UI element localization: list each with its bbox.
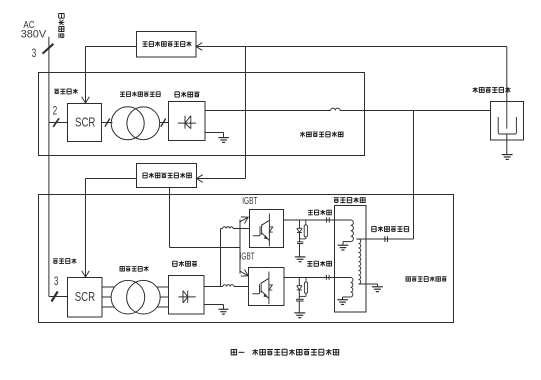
wire upper SCR to transformer [102, 122, 113, 124]
wire secondary bottom [359, 283, 378, 285]
wire lower snubber drop [298, 278, 300, 286]
transformer T1 basic HV transformer [111, 107, 144, 140]
label SCR (lower) [75, 291, 95, 305]
label SCR (upper) [75, 116, 95, 130]
label 整流硅堆 (upper) [175, 92, 179, 97]
wire D1 lower output to ground [205, 132, 224, 134]
label 电源进线 (vertical) [59, 13, 64, 18]
wire U2 bottom IGBT gate feed [169, 188, 171, 248]
rectifier D2 lower silicon stack box [169, 276, 205, 315]
wire lower SCR phase C [102, 306, 115, 308]
wire gate to lower IGBT [240, 271, 248, 276]
wire ESP feed vertical [506, 47, 508, 102]
wire snubber mid (upper) [299, 233, 301, 242]
wire D2 lower output to ground [204, 304, 224, 306]
wire to ground G3 [299, 244, 301, 257]
wire branch to upper SCR [49, 122, 68, 124]
IGBT symbol (lower) [268, 272, 270, 279]
inductor L1 on main line [331, 108, 340, 110]
thyristor Q1 upper SCR box [68, 104, 102, 142]
wire bus to L2 [221, 228, 223, 230]
svg-text:IGBT: IGBT [242, 194, 257, 206]
wire secondary top (coupling) [356, 238, 413, 240]
transformer T3 pulse transformer box [335, 206, 367, 313]
capacitor C1 storage (series marks) [326, 217, 328, 222]
wire T2 out phase C [157, 306, 169, 308]
thyristor Q2 lower SCR box [68, 278, 103, 318]
arrow into upper IGBT [241, 217, 248, 224]
arrow into lower IGBT [241, 269, 248, 276]
wire upper IGBT output [284, 219, 351, 221]
wire coupling riser to main line [413, 111, 415, 240]
wire U2 left to lower SCR gate [86, 178, 137, 180]
wire snubber junction (lower) [299, 295, 306, 297]
svg-text:3: 3 [32, 48, 37, 61]
resistor R2 lower snubber [305, 278, 307, 282]
inductor L2 upper IGBT feed [223, 227, 234, 229]
label IGBT (upper) [242, 194, 257, 206]
T3 secondary winding [359, 239, 361, 284]
transistor V2 lower IGBT box [249, 268, 285, 306]
module U2 pulse HV control module box [137, 164, 197, 188]
wire L3 to lower IGBT [234, 286, 249, 288]
transformer T2 medium voltage transformer [111, 280, 145, 314]
wire to ground G6 [298, 301, 300, 313]
wire slash 2-phase (upper SCR input) [53, 118, 59, 127]
svg-text:IGBT: IGBT [240, 250, 255, 262]
wire T3 lower primary to ground [343, 296, 351, 298]
capacitor C2 upper snubber [297, 241, 303, 243]
wire snubber mid (lower) [298, 290, 300, 299]
capacitor C5 isolation coupling marks [384, 236, 386, 242]
wire U1 gate drive vertical [85, 47, 87, 104]
label 储能电容 (upper) [308, 210, 313, 215]
wire ESP to ground [506, 134, 508, 154]
label 隔离耦合电容 [372, 226, 376, 231]
label phase count 3 (top) [32, 48, 37, 61]
arrow into U1 right edge [196, 43, 202, 51]
box conventional power supply main circuit (常规电源主回路) [39, 73, 365, 156]
wire L2 to upper IGBT [233, 228, 249, 230]
rectifier D1 upper silicon stack box [169, 102, 206, 141]
ESP electric field box [491, 102, 524, 141]
box pulse power supply main circuit (脉冲电源主回路) [39, 195, 454, 323]
label 中压变压器 [120, 267, 124, 271]
wire slash (SCR-transformer) [105, 119, 110, 127]
wire T2 out phase A [157, 286, 169, 288]
wire gate to upper IGBT [240, 217, 248, 222]
svg-text:SCR: SCR [75, 116, 95, 130]
ground G8 (lower rectifier) [219, 309, 229, 314]
wire lower SCR phase B [102, 296, 111, 298]
wire T3 upper primary to ground [343, 241, 351, 243]
ground G4 (upper primary) [338, 245, 349, 250]
T3 lower primary winding [351, 278, 353, 298]
label 脉冲变压器 [334, 198, 339, 203]
arrow into upper SCR [82, 97, 90, 103]
wire D1 output main HV line [205, 110, 331, 112]
arrow into U2 right edge [197, 175, 203, 183]
label 电除尘器电场 [473, 87, 478, 93]
diode D4 lower snubber [297, 285, 303, 287]
wire transformer to rectifier [160, 122, 169, 124]
module U1 basic HV control module box [137, 32, 197, 58]
label phase count 2 (upper) [53, 105, 58, 118]
svg-text:2: 2 [53, 105, 58, 118]
label 可控硅组 (lower) [53, 259, 58, 263]
inductor L3 lower IGBT feed [223, 285, 234, 287]
arrow into lower SCR [82, 271, 90, 277]
wire slash (transformer-rectifier) [161, 119, 166, 127]
wire IGBT gate bus vertical [239, 220, 241, 274]
svg-text:380V: 380V [21, 28, 47, 40]
transistor V1 upper IGBT box [250, 210, 284, 248]
T3 upper primary winding [351, 220, 354, 242]
label IGBT (lower) [240, 250, 255, 262]
ground G7 (lower primary) [337, 300, 348, 305]
caption 图一 脉冲高压电源主回路原理示意图 [231, 349, 236, 354]
label 基础高压控制模块 [143, 42, 148, 47]
IGBT symbol (upper) [268, 214, 270, 221]
diode D3 upper snubber [297, 227, 303, 229]
ground G5 (secondary) [372, 287, 383, 292]
ground G3 (upper snubber) [295, 257, 306, 262]
svg-text:SCR: SCR [75, 291, 95, 305]
ground G2 (ESP) [502, 155, 513, 160]
wire U1 left to SCR gate [86, 46, 137, 48]
wire snubber junction (upper) [300, 238, 306, 240]
ESP electrode symbol [506, 102, 508, 129]
ground G1 (upper rectifier) [218, 138, 228, 143]
capacitor C4 lower snubber [296, 298, 304, 300]
diode symbol in D1 [178, 122, 196, 124]
wire U2 gate drive vertical [85, 179, 87, 278]
svg-text:3: 3 [54, 276, 59, 289]
wire DC bus vertical [220, 229, 222, 287]
wire AC 3-phase slash mark [43, 44, 54, 54]
ground G6 (lower snubber) [294, 313, 305, 318]
wire into U2 right edge [197, 178, 246, 180]
label phase count 3 (lower) [54, 276, 59, 289]
wire slash 3-phase (lower SCR input) [52, 292, 58, 302]
resistor R1 upper snubber [305, 220, 307, 225]
label 常规电源主回路 [300, 132, 305, 137]
label 脉冲高压控制模块 [143, 173, 147, 178]
wire upper snubber drop [299, 220, 301, 228]
label 储能电容 (lower) [307, 261, 312, 266]
wire IGBT gate feed horizontal [170, 247, 241, 249]
label 脉冲电源主回路 [406, 277, 410, 281]
diode symbol in D2 [178, 296, 195, 298]
node AC 380V input label [23, 19, 34, 30]
wire D2 top output [204, 286, 223, 288]
label 可控硅组 (upper) [54, 89, 59, 93]
wire lower SCR phase A [102, 286, 115, 288]
wire lower IGBT output [284, 277, 351, 279]
label 基础高压变压器 [120, 92, 125, 96]
wire AC elbow into lower SCR [49, 296, 68, 298]
capacitor C3 storage (series marks) [325, 275, 327, 280]
wire T2 out phase B [160, 296, 169, 298]
label 整流硅堆 (lower) [173, 261, 177, 266]
wire feedback top horizontal [196, 46, 507, 48]
wire AC feed vertical [48, 37, 50, 297]
wire feedback branch vertical to U2 [245, 47, 247, 179]
